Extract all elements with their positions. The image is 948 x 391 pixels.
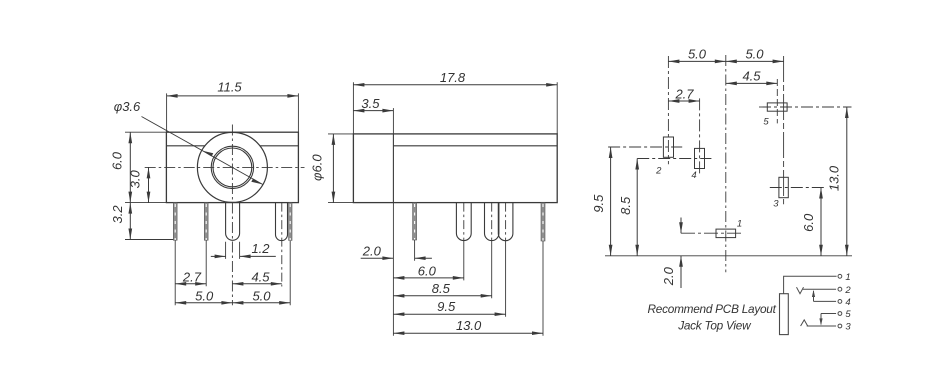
front pin D (right wide, round bottom) xyxy=(276,203,288,241)
front view hole ring outer xyxy=(211,146,253,188)
terminal 3 circle xyxy=(838,324,842,328)
svg-text:8.5: 8.5 xyxy=(432,281,451,296)
side pin 3 (wide round bottom) xyxy=(485,203,499,241)
svg-text:3: 3 xyxy=(773,198,779,209)
dimension 3.5 extension line xyxy=(392,108,394,134)
wire ring contact to terminal 3 xyxy=(807,325,836,327)
side pin 4 (wide round bottom) xyxy=(498,203,513,241)
svg-text:φ6.0: φ6.0 xyxy=(310,154,325,181)
svg-text:11.5: 11.5 xyxy=(217,80,242,95)
dimension 6.0 left extension lines xyxy=(125,132,166,202)
front pin B (second thin) xyxy=(204,203,208,241)
dimension 2.7 front line xyxy=(175,283,206,285)
JACK SCHEMATIC xyxy=(780,274,842,334)
switch riser 5-3 with arrow xyxy=(820,314,822,325)
svg-text:8.5: 8.5 xyxy=(618,196,633,215)
switch riser 2-4 with arrow xyxy=(813,291,815,301)
pad 2 xyxy=(608,56,682,164)
dimension 1.2 extension lines xyxy=(226,242,240,259)
side step extension line below xyxy=(392,203,394,336)
pad 4 xyxy=(637,98,711,173)
svg-text:1: 1 xyxy=(845,272,850,283)
svg-text:5: 5 xyxy=(845,309,851,320)
svg-text:6.0: 6.0 xyxy=(418,263,437,278)
dimension 1.2 arrow segments xyxy=(211,255,226,257)
front view flange step line xyxy=(166,145,298,147)
front pin C (center wide, round bottom) xyxy=(226,203,240,241)
front view body xyxy=(166,132,298,202)
svg-text:6.0: 6.0 xyxy=(110,151,125,170)
dimension 13.0 side line xyxy=(393,332,543,334)
dimension 4.5 pcb line xyxy=(726,82,778,84)
terminal 4 circle xyxy=(838,300,842,304)
dimension 6.0 pcb line xyxy=(820,188,822,256)
dimension 6.0 side line xyxy=(393,277,463,279)
wire to terminal 5 xyxy=(821,313,836,315)
dimension 17.8 extension lines xyxy=(353,82,557,134)
ring spring contact caret xyxy=(801,320,808,326)
dimension 13.0 pcb line xyxy=(846,107,848,256)
dimension 3.0 line xyxy=(148,167,150,202)
dimension phi3.6 leader and diameter line xyxy=(142,117,263,185)
side pin centerlines xyxy=(464,203,506,241)
svg-text:4: 4 xyxy=(845,297,850,308)
side pin 2 (wide round bottom) xyxy=(456,203,471,241)
front pin E (right thin) xyxy=(289,203,292,241)
svg-text:5.0: 5.0 xyxy=(195,288,214,303)
svg-text:9.5: 9.5 xyxy=(591,194,606,213)
front view vertical centerline xyxy=(231,125,233,306)
front view horizontal centerline xyxy=(145,166,305,168)
pcb bottom reference line xyxy=(605,255,852,257)
dimension 11.5 line xyxy=(167,95,299,97)
svg-text:6.0: 6.0 xyxy=(801,213,816,232)
dimension 5.0 front right line xyxy=(232,302,290,304)
svg-text:3: 3 xyxy=(845,321,851,332)
dimension 5.0 pcb right line xyxy=(726,60,784,62)
svg-text:2: 2 xyxy=(844,285,851,296)
svg-text:17.8: 17.8 xyxy=(440,70,466,85)
side pin extension lines below xyxy=(415,240,543,336)
terminal 1 circle xyxy=(838,274,842,278)
wire sleeve to terminal 1 xyxy=(784,276,837,293)
side view body xyxy=(353,134,557,203)
dimension 2.0 side arrow segments xyxy=(361,257,394,259)
svg-text:φ3.6: φ3.6 xyxy=(114,99,141,114)
side pin 5 (thin) xyxy=(541,203,545,241)
dimension phi6.0 line xyxy=(332,134,334,203)
front pin A (left thin) xyxy=(173,203,177,241)
svg-text:9.5: 9.5 xyxy=(437,299,456,314)
dimension 3.2 extension line xyxy=(125,239,173,241)
svg-text:5: 5 xyxy=(763,116,769,127)
svg-text:3.5: 3.5 xyxy=(361,96,380,111)
svg-text:Recommend PCB Layout: Recommend PCB Layout xyxy=(648,302,777,316)
front view barrel outer circle xyxy=(197,132,267,202)
pad 1 xyxy=(681,229,741,238)
svg-text:1.2: 1.2 xyxy=(251,241,270,256)
side pin 1 (thin) xyxy=(413,203,417,240)
dimension 6.0 left line xyxy=(129,132,131,202)
pad 3 xyxy=(770,56,824,204)
dimension 17.8 line xyxy=(353,84,557,86)
dimension 9.5 side line xyxy=(393,313,505,315)
svg-text:13.0: 13.0 xyxy=(456,318,482,333)
pcb central axis centerline xyxy=(725,55,727,272)
dimension 8.5 pcb line xyxy=(636,159,638,256)
svg-text:2.7: 2.7 xyxy=(182,269,202,284)
svg-text:2: 2 xyxy=(655,166,662,177)
terminal 5 circle xyxy=(838,312,842,316)
dimension phi6.0 extension lines xyxy=(328,134,353,203)
dimension 8.5 side line xyxy=(393,295,491,297)
pad 5 xyxy=(759,79,852,123)
dimension 9.5 pcb line xyxy=(610,147,612,256)
front pin D centerline xyxy=(281,203,283,287)
wire to terminal 4 xyxy=(814,300,837,302)
svg-text:13.0: 13.0 xyxy=(827,165,842,191)
jack plug body xyxy=(780,294,789,335)
svg-text:2.0: 2.0 xyxy=(362,243,382,258)
front pin extension lines below xyxy=(175,240,290,305)
dimension 4.5 front line xyxy=(232,283,281,285)
dimension 5.0 front left line xyxy=(175,302,232,304)
dimension 2.0 pcb arrow segments xyxy=(680,218,682,234)
svg-text:2.0: 2.0 xyxy=(661,266,676,286)
svg-text:3.0: 3.0 xyxy=(127,169,142,188)
dimension 3.5 line xyxy=(353,110,393,112)
svg-text:1: 1 xyxy=(737,219,742,230)
dimension 11.5 extension lines xyxy=(167,93,299,132)
wire tip contact to terminal 2 xyxy=(803,288,836,290)
dimension 5.0 pcb left line xyxy=(668,60,725,62)
front view hole ring inner xyxy=(213,148,252,187)
side view step line xyxy=(392,134,394,203)
dimension 3.2 line xyxy=(129,203,131,240)
svg-text:5.0: 5.0 xyxy=(252,288,271,303)
svg-text:3.2: 3.2 xyxy=(110,205,125,224)
svg-text:2.7: 2.7 xyxy=(674,86,694,101)
terminal 2 circle xyxy=(838,287,842,291)
svg-text:5.0: 5.0 xyxy=(688,47,707,62)
svg-text:4.5: 4.5 xyxy=(742,68,761,83)
svg-text:4.5: 4.5 xyxy=(251,269,270,284)
side view top groove line xyxy=(393,145,557,147)
tip spring contact V xyxy=(797,287,804,294)
svg-text:4: 4 xyxy=(691,170,696,181)
dimension 2.7 pcb line xyxy=(668,100,699,102)
svg-text:Jack Top View: Jack Top View xyxy=(677,319,752,333)
svg-text:5.0: 5.0 xyxy=(745,47,764,62)
